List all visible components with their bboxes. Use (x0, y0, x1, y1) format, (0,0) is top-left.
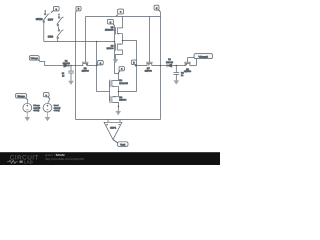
svg-text:D2: D2 (168, 58, 171, 61)
svg-text:40 kHz): 40 kHz) (33, 109, 39, 112)
node junction C2 tap (176, 65, 178, 67)
ground (V2) (45, 117, 51, 121)
transistor M5 (inverter A upper, PMOS) (115, 17, 123, 35)
svg-text:2N7000: 2N7000 (119, 99, 127, 102)
svg-text:Vcharge2: Vcharge2 (199, 55, 209, 58)
wire wordline bus (44, 41, 115, 43)
svg-text:2N7000: 2N7000 (82, 69, 90, 72)
wire opamp rail (76, 119, 161, 121)
wire cross-couple invA out to right cell (123, 41, 137, 92)
svg-text:1u: 1u (62, 74, 64, 77)
node flag q (inverter A input bubble) (107, 19, 114, 25)
svg-text:40 kHz): 40 kHz) (54, 109, 60, 112)
label V2 (54, 104, 61, 112)
voltage source V2 (43, 93, 52, 118)
capacitor C2 (173, 66, 179, 81)
svg-text:NTD2955: NTD2955 (119, 82, 128, 85)
switch SW8 (57, 30, 64, 42)
node flag a2 (invB out bubble) (118, 66, 124, 73)
svg-text:2N7000: 2N7000 (145, 69, 153, 72)
node junction gateline/bus (114, 41, 116, 43)
svg-text:2N7000: 2N7000 (184, 70, 192, 73)
wire M2 drain step (188, 58, 197, 66)
node junction left cell at M1 (96, 65, 98, 67)
node junction invA output (122, 40, 124, 42)
wire invB output to right cell line (119, 91, 137, 93)
ground (C1) (68, 81, 74, 85)
wire left bitline (75, 13, 77, 120)
node flag Vcharge2 (right bubble) (194, 54, 213, 59)
svg-text:Vout: Vout (120, 143, 125, 146)
transistor M4 (inverter B lower) (110, 96, 119, 106)
wire wordline rail (86, 16, 161, 18)
wire M1 gate drop (85, 17, 87, 62)
diode D1 (64, 64, 69, 68)
node junction left cell at bus (96, 41, 98, 43)
svg-text:LAB: LAB (24, 159, 33, 164)
ground (inverter B) (115, 111, 121, 115)
svg-text:SW10: SW10 (36, 18, 43, 21)
wire right bitline (160, 12, 162, 120)
ground (V1) (25, 117, 31, 121)
svg-text:CMP1: CMP1 (110, 127, 117, 130)
node junction C1 tap (70, 65, 72, 67)
wire inverter A drain join (122, 35, 124, 44)
watermark bar (0, 152, 220, 165)
svg-text:M3: M3 (119, 79, 123, 82)
transistor M3 (inverter B upper) (110, 80, 119, 88)
label V1 (33, 104, 40, 112)
wire left row (48, 65, 63, 67)
svg-text:2N7000: 2N7000 (106, 47, 114, 50)
wire Vcharge step (40, 62, 48, 66)
wire right access gate drop (149, 17, 151, 62)
node junction invB ground (118, 106, 120, 108)
node flag wl (top of left bitline) (76, 6, 82, 12)
node flag a (top-left bubble) (51, 6, 59, 12)
node flag d (top of right bitline) (154, 5, 160, 11)
transistor M7 (right access, gate up) (137, 62, 161, 66)
svg-text:Vcharge: Vcharge (17, 95, 25, 98)
svg-text:M4: M4 (119, 96, 123, 99)
wire inverter B mid join (118, 87, 120, 96)
node flag q2 (left cell bubble) (97, 60, 104, 65)
transistor M1 (left access, gate up) (81, 62, 97, 66)
voltage source V1 (16, 94, 32, 118)
op-amp CMP1 (104, 120, 122, 140)
transistor M6 (inverter A lower, NMOS) (115, 43, 123, 54)
wire inverter A ground lead (116, 55, 123, 60)
svg-text:http://circuitlab.com/c/dpq352: http://circuitlab.com/c/dpq352 (45, 157, 84, 161)
ground (inverter A) (113, 59, 119, 63)
diode D2 (pointing left) (161, 64, 184, 68)
wire left cell vertical (96, 42, 98, 92)
node flag out (opamp output) (113, 140, 128, 147)
node flag b (right cell bubble) (131, 60, 136, 67)
node junction right cell / access (136, 65, 138, 67)
node flag Vcharge (left row) (29, 56, 40, 62)
svg-text:Vcharge: Vcharge (31, 57, 39, 60)
transistor M2 (right charge, gate up) (184, 58, 197, 66)
svg-text:1u: 1u (181, 74, 183, 77)
svg-text:SW8: SW8 (48, 35, 54, 38)
switch SW10 (43, 10, 50, 42)
wire inverter B gate line (109, 81, 111, 101)
svg-text:SW7: SW7 (48, 19, 54, 22)
wire inverter A gate line + jog down to inverter B (115, 26, 119, 80)
node junction invB output (118, 91, 120, 93)
svg-text:1N4148: 1N4148 (166, 61, 174, 64)
ground (C2) (174, 80, 180, 84)
svg-text:1N4148: 1N4148 (63, 62, 71, 65)
node flag c (on wordline rail) (116, 9, 123, 16)
wire inverter B ground lead (117, 106, 119, 111)
capacitor C1 (68, 66, 74, 81)
wire inverter B input (97, 91, 110, 93)
switch SW7 (57, 13, 64, 30)
svg-text:NTD2955: NTD2955 (105, 28, 114, 31)
node junction right bitline row (160, 65, 162, 67)
